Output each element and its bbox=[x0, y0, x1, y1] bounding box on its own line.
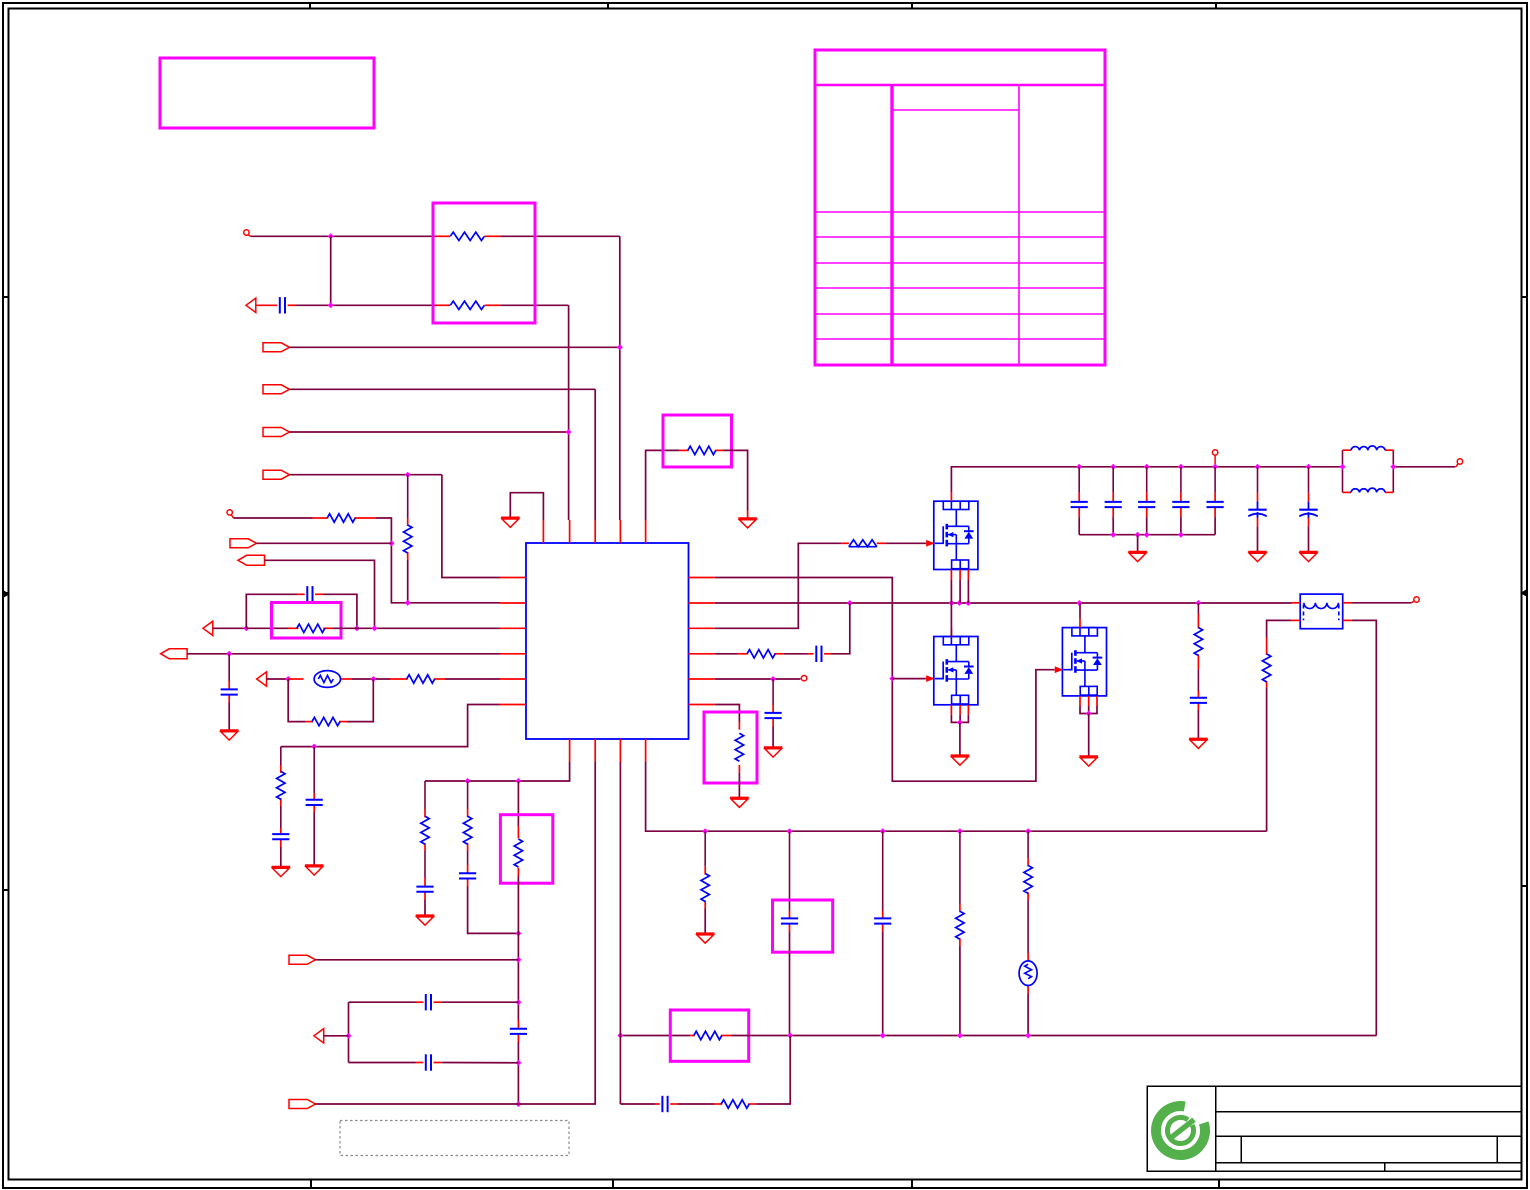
chain R15 to ground bbox=[704, 831, 706, 866]
transformer T1 coupled inductor bbox=[1291, 594, 1352, 629]
U1 pin stubs bbox=[500, 520, 715, 762]
wire row y518 bbox=[234, 517, 313, 519]
capacitor C1 bbox=[280, 297, 285, 313]
wire row y543 bbox=[257, 542, 392, 544]
capacitor C3 branch bbox=[228, 654, 230, 681]
wire row y678 left bbox=[267, 678, 289, 680]
ground bbox=[696, 934, 715, 944]
wire cap to gnd bus bbox=[1146, 517, 1148, 535]
wire U1 bottom pin x645 to mid bus bbox=[646, 762, 1267, 831]
junction bbox=[515, 1101, 521, 1107]
capacitor C10 leads bbox=[1146, 467, 1148, 493]
wire vertical between row1 and row2 bbox=[330, 236, 332, 305]
highlight box around R9 bbox=[663, 415, 732, 467]
capacitor C19 bbox=[416, 887, 433, 892]
cap C7 branch of TP net bbox=[772, 679, 774, 705]
wire to U1 bottom pin x595 bbox=[518, 762, 595, 1104]
crystal loop left vertical bbox=[348, 1002, 350, 1062]
chain C16 vertical bbox=[789, 831, 791, 910]
port arrow row y678 bbox=[257, 672, 267, 686]
MCU U1 main controller bbox=[526, 543, 689, 739]
capacitor C8 leads bbox=[1078, 467, 1080, 493]
junction bbox=[617, 344, 623, 350]
capacitor C12 leads bbox=[1214, 467, 1216, 493]
resistor R6 bbox=[312, 717, 340, 725]
wire RT2 to bottom bus bbox=[1027, 994, 1029, 1036]
wire cap bypass right leg bbox=[323, 594, 357, 628]
resistor R19 bbox=[721, 1100, 749, 1108]
wire main rail y603 bbox=[715, 602, 1292, 604]
junction bbox=[328, 302, 334, 308]
resistor R9 bbox=[688, 446, 716, 454]
capacitor C18 bbox=[662, 1096, 667, 1112]
junction bbox=[226, 651, 232, 657]
junction bbox=[1255, 464, 1261, 470]
ground bbox=[951, 756, 970, 766]
capacitor C21 on x518 line bbox=[517, 1020, 519, 1029]
capacitor C15 bbox=[1190, 698, 1207, 703]
pin VOUT2 bbox=[1414, 597, 1419, 602]
port arrow out row y653 bbox=[161, 649, 188, 659]
chain B cap C5 branch bbox=[313, 747, 315, 793]
highlight box around R12 bbox=[704, 712, 757, 783]
junction bbox=[285, 676, 291, 682]
junction bbox=[787, 1033, 793, 1039]
wire C20 to x518 net bbox=[468, 887, 519, 934]
wire arrow to loop bbox=[324, 1035, 349, 1037]
wire C1 to R2 bbox=[296, 304, 437, 306]
wire cap to gnd bus bbox=[1180, 517, 1182, 535]
revision table top-right bbox=[815, 50, 1105, 365]
port arrow input row2 bbox=[246, 298, 256, 312]
snubber R11 leads from U1 pin y653 bbox=[715, 653, 737, 655]
resistor R3 vertical leads bbox=[407, 475, 409, 518]
capacitor C3 bbox=[221, 689, 238, 694]
pin VCC supply bbox=[1212, 450, 1217, 455]
ground bbox=[501, 518, 520, 528]
resistor R13 bbox=[1194, 628, 1202, 656]
resistor R4 bbox=[327, 514, 355, 522]
ground bbox=[1299, 552, 1318, 562]
gate resistor R10 leads bbox=[841, 542, 849, 544]
junction bbox=[372, 625, 378, 631]
wire cap to gnd bus bbox=[1112, 517, 1114, 535]
capacitor C6 bbox=[816, 646, 821, 662]
transistor Q3 nmos bbox=[1054, 619, 1106, 706]
capacitor C20 bbox=[459, 873, 476, 878]
junction bbox=[566, 429, 572, 435]
junction bbox=[354, 625, 360, 631]
wire C15 to ground bbox=[1197, 710, 1199, 738]
ground bbox=[220, 731, 239, 741]
wire U1 pin y704 to boxed resistor bbox=[715, 705, 740, 722]
crystal top branch bbox=[349, 1001, 416, 1003]
port arrow out row y560 bbox=[238, 555, 265, 565]
crystal bottom branch bbox=[349, 1062, 416, 1064]
junction bbox=[515, 957, 521, 963]
resistor R16 vertical bbox=[956, 911, 964, 939]
resistor R1 bbox=[450, 232, 484, 240]
wire up to bottom bus bbox=[756, 1036, 790, 1105]
RC chain A vertical bbox=[280, 747, 282, 765]
wire Q3 sources joined bbox=[1080, 706, 1097, 714]
resistor R18 leads bbox=[690, 1035, 695, 1037]
junction bbox=[515, 999, 521, 1005]
ground bbox=[764, 748, 783, 758]
ground bbox=[272, 867, 291, 877]
junction bbox=[405, 600, 411, 606]
junction bbox=[617, 1033, 623, 1039]
capacitor C1 leads bbox=[256, 304, 277, 306]
wire bottom bus right part bbox=[731, 1035, 1376, 1037]
resistor R5 leads bbox=[246, 627, 288, 629]
junction bbox=[1110, 532, 1116, 538]
junction bbox=[1110, 464, 1116, 470]
title block bbox=[1147, 1086, 1522, 1171]
junction bbox=[1086, 711, 1092, 717]
capacitor C23 bbox=[426, 1054, 431, 1070]
capacitor C9 leads bbox=[1112, 467, 1114, 493]
wire row y560 bbox=[265, 560, 375, 628]
capacitor C5 bbox=[306, 800, 323, 805]
port arrow row y432 bbox=[263, 428, 290, 437]
port arrow crystal bbox=[314, 1029, 324, 1043]
wire C4 to ground bbox=[280, 847, 282, 866]
junction bbox=[847, 600, 853, 606]
wire cap to gnd bus bbox=[1214, 517, 1216, 535]
wire U1 bottom pin x620 down bbox=[619, 762, 621, 1104]
wire row y347 bbox=[290, 346, 620, 348]
capacitor C8 bbox=[1071, 502, 1088, 507]
wire row y432 bbox=[290, 431, 569, 433]
wire bus to ground bbox=[1137, 535, 1139, 552]
resistor R2 leads bbox=[436, 304, 450, 306]
ground bbox=[1128, 552, 1147, 562]
wire gnd bus under caps bbox=[1079, 534, 1215, 536]
wire U1 top pin5 up to boxed resistor bbox=[646, 450, 680, 520]
capacitor C9 bbox=[1105, 502, 1122, 507]
resistor R18 in series bbox=[694, 1031, 722, 1039]
junction bbox=[965, 600, 971, 606]
inductor pair L1 parallel choke bbox=[1343, 446, 1394, 493]
wire R7 to U1 bbox=[445, 678, 500, 680]
wire to resistor box bbox=[331, 235, 436, 237]
capacitor C16 bbox=[781, 918, 798, 923]
wire Q2 gate lead bbox=[892, 678, 926, 680]
junction bbox=[1178, 464, 1184, 470]
highlight box around C16 bbox=[773, 900, 833, 952]
port arrow row y474 bbox=[263, 470, 290, 479]
wire C5 to ground bbox=[313, 812, 315, 865]
capacitor C4 bbox=[272, 834, 289, 839]
wire R14 down to mid bus bbox=[1266, 687, 1268, 831]
wire U1 bottom pin x569 down to row y781 bbox=[425, 762, 570, 781]
polarized capacitor C13 leads bbox=[1257, 467, 1259, 493]
wire U1 pin y679 to test point bbox=[715, 678, 801, 680]
resistor R9 leads bbox=[679, 449, 688, 451]
wire row y653 bbox=[187, 653, 500, 655]
capacitor C2 bbox=[307, 586, 312, 602]
wire C16 to bottom bus bbox=[789, 932, 791, 1036]
resistor R7 bbox=[407, 675, 435, 683]
junction bbox=[515, 778, 521, 784]
junction bbox=[243, 625, 249, 631]
resistor R3 vertical bbox=[404, 525, 412, 553]
wire Q3 drain to rail y603 bbox=[1079, 603, 1081, 619]
wire net VIN1 horizontal bbox=[249, 235, 251, 236]
polarized capacitor C13 bbox=[1248, 501, 1266, 517]
junction bbox=[1195, 600, 1201, 606]
wire to junction bbox=[352, 678, 390, 680]
junction bbox=[1144, 532, 1150, 538]
port arrow row y347 bbox=[263, 343, 290, 352]
chain X1a R C to ground bbox=[424, 781, 426, 809]
capacitor C22 bbox=[426, 994, 431, 1010]
port arrow row y628 bbox=[203, 621, 213, 635]
chain R17 + thermistor vertical bbox=[1027, 831, 1029, 858]
wire corner down to U1 left pin y577 bbox=[442, 475, 500, 578]
thermistor RT1 leads bbox=[288, 678, 303, 680]
junction bbox=[957, 1033, 963, 1039]
wire C3 to ground bbox=[228, 702, 230, 730]
pin P2 left bbox=[227, 510, 232, 515]
resistor R8 vertical bbox=[277, 771, 285, 799]
capacitor C17 bbox=[874, 918, 891, 923]
junction bbox=[787, 828, 793, 834]
wire bottom bus bbox=[620, 1035, 690, 1037]
capacitor C2 leads bbox=[297, 593, 305, 595]
wire R13 to C15 bbox=[1197, 669, 1199, 691]
port arrow row y543 bbox=[230, 539, 257, 548]
junction bbox=[1178, 532, 1184, 538]
wire R3 to row y603 bbox=[407, 560, 409, 603]
polarized capacitor C14 bbox=[1299, 501, 1317, 517]
wire U1 pin y628 up to gate resistor bbox=[715, 543, 841, 628]
wire R9 to ground bbox=[723, 450, 748, 510]
port arrow row y1104 bbox=[289, 1100, 316, 1109]
junction bbox=[1212, 464, 1218, 470]
thermistor RT2 vertical bbox=[1019, 961, 1037, 986]
wire T1 bottom-right down to bottom bus bbox=[1352, 620, 1376, 1035]
junction bbox=[311, 744, 317, 750]
wire Q3 source to ground bbox=[1088, 714, 1090, 756]
junction bbox=[1390, 464, 1396, 470]
junction bbox=[880, 1033, 886, 1039]
highlight box around R18 bbox=[670, 1010, 748, 1061]
resistor R15 vertical bbox=[701, 874, 709, 902]
wire R8 to C4 bbox=[280, 806, 282, 828]
junction bbox=[880, 828, 886, 834]
junction bbox=[370, 676, 376, 682]
resistor R22 vertical bbox=[514, 839, 522, 867]
ground bbox=[730, 798, 749, 808]
junction bbox=[1144, 464, 1150, 470]
wire U1 left pin y704 loop bbox=[281, 705, 500, 747]
series C18 R19 return path bbox=[620, 1103, 655, 1105]
port arrow row y959 bbox=[289, 955, 316, 964]
wire row y628 to U1 bbox=[332, 627, 500, 629]
resistor R21 vertical bbox=[463, 816, 471, 844]
capacitor C10 bbox=[1138, 502, 1155, 507]
wire row y628 left bbox=[213, 627, 247, 629]
ground bbox=[1079, 757, 1098, 767]
wire cap bypass left leg bbox=[246, 594, 297, 628]
junction bbox=[515, 1060, 521, 1066]
wire x518 vertical chain bbox=[517, 781, 519, 826]
pin P1 top-left bbox=[244, 230, 249, 235]
frame centre arrow left bbox=[3, 593, 9, 595]
wire Q2 drain to rail y603 bbox=[950, 628, 952, 637]
resistor R5 bbox=[297, 624, 325, 632]
company logo bbox=[1156, 1106, 1205, 1155]
resistor R2 bbox=[450, 301, 484, 309]
wire Q1 drain up to VCC rail bbox=[951, 467, 1342, 493]
wire row y474 bbox=[290, 474, 442, 476]
wire Q1 sources to rail y603 bbox=[950, 580, 952, 603]
junction bbox=[1025, 1033, 1031, 1039]
junction bbox=[405, 472, 411, 478]
wire U1 top pin1 to ground loop bbox=[510, 493, 543, 520]
port arrow row y389 bbox=[263, 385, 290, 394]
junction bbox=[388, 540, 394, 546]
wire row y1104 bbox=[316, 1103, 519, 1105]
wire R12 to ground bbox=[738, 773, 740, 797]
wire cap to ground bbox=[1308, 526, 1310, 551]
highlight box around R22 bbox=[500, 815, 552, 884]
junction bbox=[346, 1033, 352, 1039]
resistor R17 vertical bbox=[1024, 865, 1032, 893]
transistor Q2 nmos bbox=[926, 628, 978, 715]
wire R11 to C6 bbox=[784, 653, 808, 655]
capacitor C11 leads bbox=[1180, 467, 1182, 493]
wire row y959 bbox=[316, 959, 519, 961]
resistor R12 vertical bbox=[735, 733, 743, 761]
junction bbox=[957, 828, 963, 834]
wire R1 to vertical bbox=[500, 235, 619, 237]
highlight box around R5 bbox=[272, 603, 342, 639]
junction bbox=[1076, 464, 1082, 470]
wire T1 out to pin bbox=[1351, 602, 1411, 604]
ground bbox=[305, 866, 324, 876]
wire C17 to bottom bus bbox=[882, 932, 884, 1036]
wire R16 to bottom bus bbox=[959, 946, 961, 1036]
capacitor C11 bbox=[1172, 502, 1189, 507]
wire R10 to Q1 gate bbox=[886, 542, 926, 544]
resistor R20 vertical bbox=[421, 816, 429, 844]
resistor R6 leads bbox=[305, 721, 313, 723]
wire vertical to U1 pin top2 bbox=[568, 305, 570, 520]
junction bbox=[328, 233, 334, 239]
wire cap to ground bbox=[1257, 526, 1259, 551]
wire C6 up to rail bbox=[832, 603, 850, 654]
chain R16 vertical bbox=[959, 831, 961, 904]
junction bbox=[1025, 828, 1031, 834]
snubber resistor R13 vertical leads bbox=[1197, 603, 1199, 614]
junction bbox=[956, 600, 962, 606]
wire row y389 bbox=[290, 388, 596, 390]
wire Q2 sources joined bbox=[951, 715, 968, 723]
junction bbox=[1306, 464, 1312, 470]
junction bbox=[1076, 600, 1082, 606]
highlight box (empty) top-left bbox=[160, 58, 374, 128]
wire rail after choke to pin bbox=[1393, 466, 1455, 468]
wire R4 corner down bbox=[375, 518, 500, 603]
capacitor C12 bbox=[1207, 502, 1224, 507]
junction bbox=[949, 600, 955, 606]
transistor Q1 nmos high-side bbox=[926, 492, 978, 579]
resistor R4 leads bbox=[313, 517, 329, 519]
junction bbox=[957, 719, 963, 725]
ground bbox=[1248, 552, 1267, 562]
ground bbox=[1189, 739, 1208, 749]
chain R21 C20 bbox=[467, 781, 469, 809]
junction bbox=[770, 676, 776, 682]
wire vertical to U1 pin top4 bbox=[619, 236, 621, 520]
lower path up to junction bbox=[347, 679, 373, 722]
wire T1 bottom-left to feedback resistor bbox=[1267, 620, 1291, 637]
polarized capacitor C14 leads bbox=[1308, 467, 1310, 493]
pin TP1 bbox=[801, 676, 806, 681]
junction bbox=[1135, 532, 1141, 538]
wire Q2 source to ground bbox=[959, 722, 961, 754]
parallel resistor R6 lower path bbox=[288, 679, 305, 722]
wire vertical to U1 pin top3 bbox=[594, 389, 596, 520]
junction bbox=[515, 930, 521, 936]
wire P2 stem bbox=[232, 515, 234, 518]
thermistor RT1 bbox=[314, 671, 340, 688]
junction bbox=[465, 778, 471, 784]
capacitor C7 bbox=[765, 713, 782, 718]
ground bbox=[416, 916, 435, 926]
wire gate net from U1 pin y577 bbox=[715, 578, 1055, 782]
wire cap to gnd bus bbox=[1078, 517, 1080, 535]
pin VOUT1 bbox=[1457, 459, 1462, 464]
resistor R1 leads bbox=[436, 235, 450, 237]
chain C17 vertical bbox=[882, 831, 884, 910]
junction bbox=[889, 676, 895, 682]
highlight box around R1 R2 bbox=[433, 203, 535, 323]
resistor R11 bbox=[747, 650, 775, 658]
gate resistor R10 triangle-wave bbox=[849, 540, 877, 547]
wire C7 to ground bbox=[772, 726, 774, 747]
junction bbox=[1340, 464, 1346, 470]
resistor R14 vertical bbox=[1262, 654, 1270, 682]
dotted annotation rectangle bbox=[340, 1121, 569, 1156]
junction bbox=[702, 828, 708, 834]
ground bbox=[738, 518, 757, 528]
resistor R7 leads bbox=[390, 678, 408, 680]
frame centre arrow right bbox=[1522, 592, 1528, 594]
wire R2 to vertical bbox=[500, 304, 568, 306]
